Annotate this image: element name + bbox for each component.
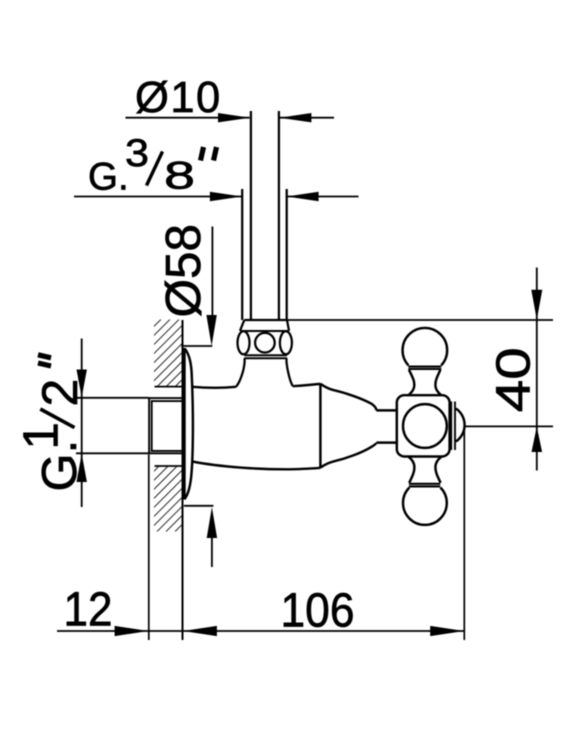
cone top contour [320, 384, 376, 411]
label G.3/8" [88, 132, 217, 199]
knurl right ellipse [280, 331, 292, 354]
valve body top contour (right of bonnet) [293, 384, 321, 386]
valve body bottom contour [193, 462, 321, 470]
inlet square fitting: left double edge [148, 397, 150, 454]
stem neck bottom line [376, 441, 397, 443]
handle cap dome [456, 409, 465, 442]
svg-text:1: 1 [15, 422, 69, 449]
bottom dimension: extension line from fitting left face [148, 455, 150, 641]
flange dome (rosette Ø58) [184, 348, 193, 499]
wall hole top edge [155, 386, 183, 388]
dimension 40 bottom extension line [466, 425, 554, 427]
wall hatch bottom block [154, 466, 182, 532]
svg-text:106: 106 [281, 584, 355, 638]
bonnet top edge [244, 319, 287, 321]
bottom dimension line 12 and 106 [57, 626, 464, 636]
inlet square fitting G1/2: top double edge [149, 397, 182, 454]
top arm stem left side [408, 370, 414, 396]
knurl middle circle [255, 333, 275, 353]
bottom arm ball [403, 488, 447, 525]
bottom arm collar double line [409, 483, 440, 485]
top arm collar double line [408, 365, 441, 367]
cone bottom contour [320, 443, 376, 468]
bonnet neck left and flare [236, 358, 245, 387]
dimension 40 vertical line and arrows [531, 268, 542, 471]
dimension G.3/8" line and arrows [74, 192, 359, 201]
valve body top contour (left of bonnet) [193, 387, 237, 388]
svg-text:12: 12 [64, 583, 113, 637]
svg-text:8: 8 [164, 155, 195, 198]
top arm ball [403, 328, 448, 365]
svg-text:Ø58: Ø58 [156, 224, 211, 318]
knurl ring bottom double line [244, 355, 287, 358]
dimension 40 top extension line [287, 319, 553, 321]
top arm stem right side [435, 370, 441, 396]
handle hub front ball circle [403, 404, 447, 448]
bonnet cap trapezoid sides [240, 320, 244, 331]
stem neck top line [376, 409, 397, 411]
handle hub rounded square [397, 395, 450, 456]
knurl ring outline [240, 330, 289, 332]
wall hole bottom edge [155, 465, 183, 467]
svg-text:3: 3 [125, 132, 149, 175]
dimension Ø10 line and arrows [126, 113, 335, 122]
knurl left ellipse [238, 331, 250, 354]
bottom dimension: extension line from handle cap tip [463, 428, 465, 641]
dimension G.1/2" leader lines [76, 339, 149, 508]
svg-text:40: 40 [487, 347, 541, 412]
handle cap double bars [450, 402, 452, 451]
bottom arm stem left side [408, 457, 414, 483]
bottom arm stem right side [435, 457, 441, 483]
cone base vertical edge [319, 384, 321, 468]
svg-text:2: 2 [32, 379, 88, 407]
svg-text:Ø10: Ø10 [135, 74, 222, 122]
wall face line [182, 320, 184, 640]
bonnet neck right and flare [287, 358, 293, 386]
label G.1/2" (rotated) [15, 355, 88, 492]
supply pipe inner lines (Ø10 tube) [251, 111, 279, 320]
dimension Ø58 leader (top arrow) [181, 227, 217, 347]
wall hatch top block [154, 320, 182, 387]
supply pipe outer lines (G3/8 thread) [242, 189, 287, 320]
flange back edge (thick) [183, 348, 186, 500]
dimension G.1/2" vertical line and arrows [81, 339, 83, 508]
dimension Ø58 bottom arrow [184, 506, 217, 567]
inlet square fitting: bottom double edge [151, 450, 183, 452]
svg-text:G.: G. [88, 156, 129, 199]
